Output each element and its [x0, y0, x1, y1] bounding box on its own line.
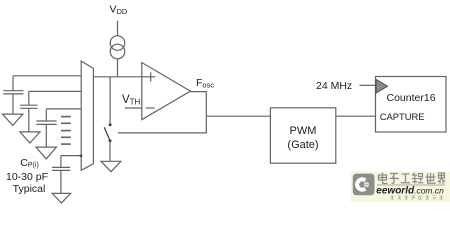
- svg-text:VTH: VTH: [122, 94, 141, 107]
- svg-text:(Gate): (Gate): [287, 139, 318, 151]
- svg-text:eeworld.com.cn: eeworld.com.cn: [376, 186, 444, 197]
- svg-text:Fosc: Fosc: [196, 77, 214, 90]
- svg-text:Typical: Typical: [13, 183, 46, 195]
- svg-text:VDD: VDD: [110, 4, 128, 17]
- svg-text:CAPTURE: CAPTURE: [380, 111, 425, 122]
- svg-text:CP(i): CP(i): [20, 157, 38, 169]
- svg-text:24 MHz: 24 MHz: [316, 80, 352, 92]
- svg-text:10-30 pF: 10-30 pF: [6, 171, 48, 183]
- svg-text:Counter16: Counter16: [387, 92, 436, 104]
- svg-text:PWM: PWM: [290, 125, 317, 137]
